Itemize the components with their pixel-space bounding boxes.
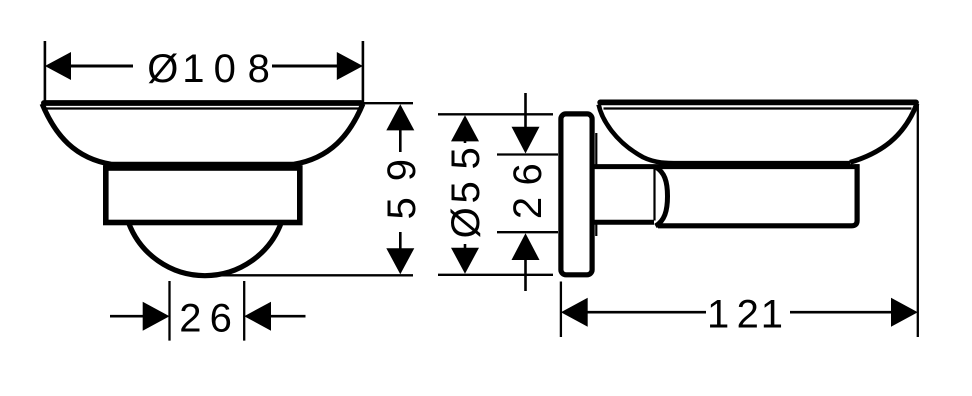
dimension 26 (front) arrow left [143, 302, 170, 331]
dimension Ø55 bottom extension line [438, 274, 553, 276]
dimension 59 bottom extension line [208, 274, 413, 276]
svg-text:121: 121 [707, 293, 783, 337]
holder ring rectangle (front view) [106, 168, 300, 223]
dimension Ø55 arrow top [451, 115, 479, 141]
dimension Ø55 line [464, 141, 467, 248]
wall plate (side view) [561, 114, 592, 275]
svg-text:Ø55: Ø55 [444, 147, 488, 238]
dish rim top (side view) [600, 100, 916, 106]
tube bottom edge and right edge (side view) [658, 164, 857, 226]
dish bowl curve left (side view) [599, 105, 850, 164]
wall plate face line upper [595, 133, 597, 165]
dimension 59 top extension line [361, 102, 413, 104]
dimension Ø55 top extension line [438, 113, 553, 115]
dimension Ø108 line left segment [70, 65, 133, 68]
dish rim inner thin line (side view) [604, 107, 912, 109]
dish rim top (front view) [44, 100, 361, 106]
dimension 121 extension line right (dish edge) [917, 104, 919, 337]
dimension 26 (side) arrow top [512, 127, 540, 154]
dimension Ø108 extension line right [362, 41, 365, 102]
dimension 59 line [399, 130, 402, 249]
dimension 26 (side) arrow bottom [512, 233, 540, 260]
dish bowl curve right upswing (side view) [850, 104, 917, 163]
dimension 121 arrow right [891, 298, 918, 327]
dimension 121 arrow left [561, 298, 588, 327]
arm neck bottom edge (side view) [594, 220, 654, 225]
holder clip arc (front view) [128, 222, 281, 276]
dimension 59 arrow top [386, 104, 414, 130]
dimension 26 (front) tails [110, 315, 306, 318]
dish bowl outline (front view) [42, 104, 363, 165]
wall plate face line lower [595, 225, 597, 237]
dish rim inner thin line (front view) [46, 107, 360, 109]
arm top line (side view) [594, 164, 860, 169]
dimension 26 (front) arrow right [244, 302, 271, 331]
dimension 26 (side) extension line bottom [497, 231, 558, 233]
tube end cap arc (side view) [656, 167, 668, 226]
dimension 121 line left segment [586, 311, 706, 314]
dimension 121 extension line left [560, 282, 562, 338]
dimension Ø108 arrow right [337, 52, 363, 80]
dimension 26 (side) tails [524, 93, 527, 291]
dimension 26 (front) extension line left [170, 281, 245, 341]
arm neck end thin line [653, 169, 655, 221]
dimension Ø108 extension line left [44, 41, 47, 102]
dimension 59 arrow bottom [386, 248, 414, 274]
dimension Ø55 arrow bottom [451, 248, 479, 274]
dimension Ø108 arrow left [45, 52, 71, 80]
dimension 121 line right segment [790, 311, 892, 314]
dimension Ø108 line right segment [272, 65, 338, 68]
dimension 26 (side) extension line top [497, 153, 558, 155]
